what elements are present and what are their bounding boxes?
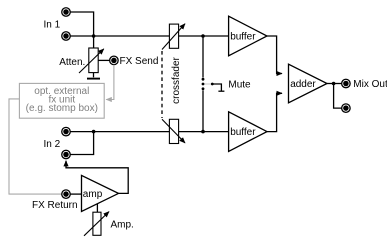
wire node B down to In2b [70,132,93,155]
wire FX Return to amp [70,193,81,195]
wire node D to buffer2 [203,131,229,133]
wire amp output feedback to In2b [66,161,128,194]
wire node E to Mix Out b [334,84,342,109]
wire node A to crossfader top [94,35,170,37]
svg-text:Atten.: Atten. [59,57,85,68]
buffer 2 [229,112,267,152]
svg-text:adder: adder [290,79,316,90]
crossfader mechanical link (dashed) [161,51,163,118]
svg-text:Mute: Mute [228,80,251,91]
jack In 1 b [62,32,71,41]
optional external fx unit box [19,83,104,118]
gray wire fx unit to FX Return [9,99,62,194]
potentiometer Amp. [84,204,109,236]
jack FX Send [110,56,119,65]
svg-text:In 2: In 2 [44,139,61,150]
junction node E [332,82,336,86]
wire node C to buffer1 [203,35,229,37]
jack FX Return [62,190,71,199]
mute switch [202,36,225,132]
crossfader bottom pot [162,119,185,143]
jack In 1 a [62,8,71,17]
jack In 2 b [62,150,71,159]
junction node D [201,130,205,134]
wire crossfader bottom to node D [179,131,203,133]
wire node A down to Atten pot [93,36,95,48]
svg-text:FX Send: FX Send [120,56,159,67]
svg-text:In 1: In 1 [44,20,61,31]
svg-text:Mix Out: Mix Out [353,79,387,90]
junction node B [92,130,96,134]
wire adder output to node E [327,83,334,85]
jack Mix Out a [342,79,351,88]
svg-text:buffer: buffer [230,127,256,138]
svg-text:buffer: buffer [230,32,256,43]
wire In1a to node A [70,12,93,36]
wire node B to crossfader bottom [94,131,170,133]
wire In2a to node B [70,131,93,133]
adder [289,64,328,103]
svg-text:FX Return: FX Return [32,200,78,211]
jack In 2 a [62,127,71,136]
wire buffer2 to adder [267,93,282,131]
crossfader top pot [162,24,185,50]
buffer 1 [229,16,267,56]
svg-text:Amp.: Amp. [111,220,134,231]
svg-text:crossfader: crossfader [171,56,182,103]
junction node C [201,34,205,38]
label opt. external fx unit (e.g. stomp box) [26,86,98,114]
wire In1b to node A [70,35,93,37]
potentiometer Atten. [79,48,104,73]
gray wire FX Send down into fx unit [106,65,114,100]
jack Mix Out b [342,104,351,113]
op-amp amp [82,175,119,211]
wire Atten wiper to FX Send [98,59,110,61]
svg-text:(e.g. stomp box): (e.g. stomp box) [26,103,98,114]
junction node A [92,34,96,38]
wire node E to Mix Out a [334,83,342,85]
ground [87,73,100,79]
wire crossfader top to node C [179,35,203,37]
svg-text:amp: amp [83,189,103,200]
wire buffer1 to adder [267,36,282,74]
